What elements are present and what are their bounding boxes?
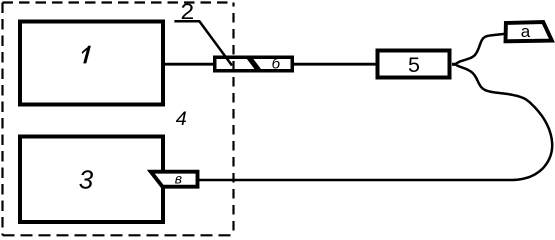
svg-text:4: 4 [176, 108, 187, 130]
svg-text:3: 3 [79, 165, 94, 195]
dashed boundary box 4 : bottom edge [3, 234, 234, 236]
wire connector b to block 5 [292, 63, 377, 66]
tag а (parallelogram) [506, 22, 552, 41]
connector Б rect [215, 57, 293, 71]
block 5 [378, 51, 450, 78]
svg-text:5: 5 [408, 53, 420, 77]
svg-text:б: б [272, 56, 281, 73]
label 1 [82, 46, 91, 64]
svg-text:а: а [521, 22, 531, 41]
dashed boundary box 4 : right edge [232, 3, 234, 236]
upper curve block5 to tag a [452, 33, 508, 64]
svg-text:в: в [175, 171, 182, 187]
wire block1 to connector b [164, 63, 215, 66]
block 3 [20, 137, 163, 223]
lower curve block5 around to tag в [197, 65, 552, 181]
connector Б diagonal stripe [246, 57, 263, 71]
dashed boundary box 4 : left edge [1, 3, 3, 236]
tag в on block 3 [151, 172, 198, 187]
block 1 [20, 22, 163, 105]
dashed boundary box 4 : top edge [3, 1, 234, 3]
leader line for label 2 [174, 21, 232, 65]
